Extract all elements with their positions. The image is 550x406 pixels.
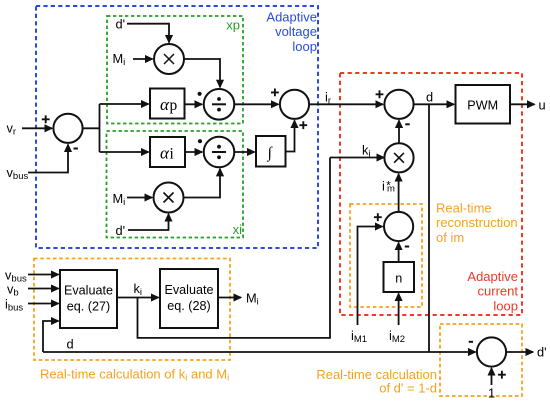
svg-text:d': d'	[116, 223, 126, 238]
wire: Mi to multiplier X1	[133, 58, 153, 60]
wire: D2 to integrator	[234, 151, 254, 153]
svg-text:PWM: PWM	[467, 99, 498, 113]
sum junction S4	[384, 212, 413, 241]
wire: ki branch down and across to X3	[138, 158, 331, 338]
svg-text:current: current	[478, 284, 519, 299]
block PWM	[456, 85, 511, 124]
block integrator	[256, 136, 286, 167]
label - at S5	[469, 341, 473, 343]
svg-text:xi: xi	[233, 222, 243, 237]
label + at S2 bottom	[299, 121, 307, 129]
svg-text:u: u	[539, 97, 546, 112]
wire: ki into multiplier X3	[330, 157, 384, 159]
wire: Mi output from eq.28	[218, 297, 241, 299]
svg-text:voltage: voltage	[275, 24, 317, 39]
wire: n output to S4 bottom	[398, 243, 400, 262]
label - at S4	[405, 246, 409, 248]
multiplier X2	[154, 183, 184, 213]
svg-text:eq. (28): eq. (28)	[167, 299, 210, 313]
wire: d branch down from PWM input	[428, 104, 430, 352]
svg-text:α: α	[160, 95, 170, 114]
svg-text:Evaluate: Evaluate	[164, 283, 213, 297]
svg-text:1: 1	[488, 386, 495, 401]
svg-text:i: i	[170, 146, 175, 163]
label + at S3	[376, 90, 384, 98]
dashed box: xp (green)	[107, 16, 243, 124]
wire: d' to multiplier X1	[127, 24, 169, 43]
wire: D1 to S2	[234, 103, 278, 105]
divider D2	[204, 137, 235, 168]
svg-text:p: p	[170, 97, 178, 114]
dashed box: real-time calculation of ki and Mi (orange)	[34, 259, 230, 361]
wire: vb input to Evaluate eq.27	[28, 288, 59, 290]
wire: vbus input	[28, 145, 68, 173]
sum junction S3	[384, 90, 413, 119]
block Evaluate eq.28	[160, 269, 218, 328]
svg-text:i: i	[382, 179, 385, 194]
svg-text:d: d	[67, 337, 74, 352]
label + at S2 left	[271, 89, 279, 97]
sum junction S1	[53, 114, 82, 143]
sum junction S2	[280, 90, 309, 119]
sum junction S5	[477, 337, 506, 366]
dashed box: adaptive voltage loop (blue)	[36, 6, 318, 248]
wire: iM1 up into S4	[358, 227, 383, 326]
svg-text:Adaptive: Adaptive	[467, 269, 518, 284]
dot marker at D2 numerator	[198, 139, 202, 143]
label - at S3	[405, 123, 409, 125]
svg-text:loop: loop	[493, 298, 518, 313]
wire: X1 output to divider D1	[184, 59, 220, 87]
block Evaluate eq.27	[60, 270, 117, 328]
wire: S3 to PWM	[414, 103, 454, 105]
wire: S1 output and branch	[83, 104, 100, 152]
wire: branch to alpha-i	[100, 151, 149, 153]
svg-text:Evaluate: Evaluate	[64, 284, 113, 298]
wire: alpha-p to D1	[185, 103, 203, 105]
svg-text:d: d	[426, 90, 433, 105]
wire: X2 output to D2 bottom	[184, 169, 221, 198]
wire: constant 1 into S5	[491, 368, 493, 385]
wire: d up into Evaluate eq.27	[43, 321, 59, 352]
svg-text:Adaptive: Adaptive	[266, 10, 317, 25]
wire: branch to alpha-p	[100, 103, 149, 105]
dashed box: real-time calculation of d' = 1-d (orange)	[440, 324, 522, 396]
multiplier X1	[154, 44, 184, 74]
block alpha-i	[150, 137, 185, 167]
label + at S4	[374, 213, 382, 221]
svg-text:reconstruction: reconstruction	[436, 215, 518, 230]
wire: ibus input to Evaluate eq.27	[28, 303, 59, 305]
wire: d' to multiplier X2	[128, 214, 169, 230]
label - at S1	[74, 148, 78, 150]
wire: d distribution line to d' sum	[43, 351, 476, 353]
svg-text:xp: xp	[226, 18, 240, 33]
svg-text:m: m	[387, 184, 395, 195]
svg-text:eq. (27): eq. (27)	[67, 300, 110, 314]
label + at S1	[42, 115, 50, 123]
svg-text:Real-time calculation of ki an: Real-time calculation of ki and Mi	[40, 367, 229, 384]
svg-text:n: n	[395, 272, 402, 286]
svg-text:α: α	[160, 144, 170, 163]
svg-text:of im: of im	[436, 230, 464, 245]
wire: integrator output to S2 bottom	[286, 120, 295, 151]
wire: X3 output to S3 bottom	[398, 120, 400, 143]
dot marker at D1 numerator	[198, 92, 202, 96]
wire: S2 to S3 (ir)	[309, 103, 383, 105]
wire: alpha-i to D2	[185, 151, 202, 153]
wire: PWM output to u	[510, 103, 535, 105]
wire: Mi to multiplier X2	[127, 197, 152, 199]
divider D1	[204, 89, 235, 120]
wire: vbus input to Evaluate eq.27	[28, 274, 59, 276]
svg-text:d': d'	[537, 345, 547, 360]
block n	[384, 262, 415, 292]
dashed box: adaptive current loop (red)	[340, 73, 522, 315]
label + at S5	[498, 371, 506, 379]
dashed box: xi (green)	[107, 131, 244, 238]
wire: im* from S4 to X3	[398, 174, 400, 212]
dashed box: real-time reconstruction of im (orange)	[350, 204, 422, 307]
svg-text:d': d'	[116, 17, 126, 32]
svg-text:Real-time: Real-time	[436, 201, 492, 216]
multiplier X3	[384, 143, 413, 172]
wire: vr input	[22, 127, 52, 129]
block alpha-p	[150, 89, 185, 119]
wire: iM2 up into n	[398, 294, 400, 326]
svg-text:loop: loop	[292, 39, 317, 54]
wire: ki from eq.27 to eq.28	[117, 297, 159, 299]
svg-text:of d' = 1-d: of d' = 1-d	[379, 381, 437, 396]
wire: S5 output d'	[506, 351, 533, 353]
